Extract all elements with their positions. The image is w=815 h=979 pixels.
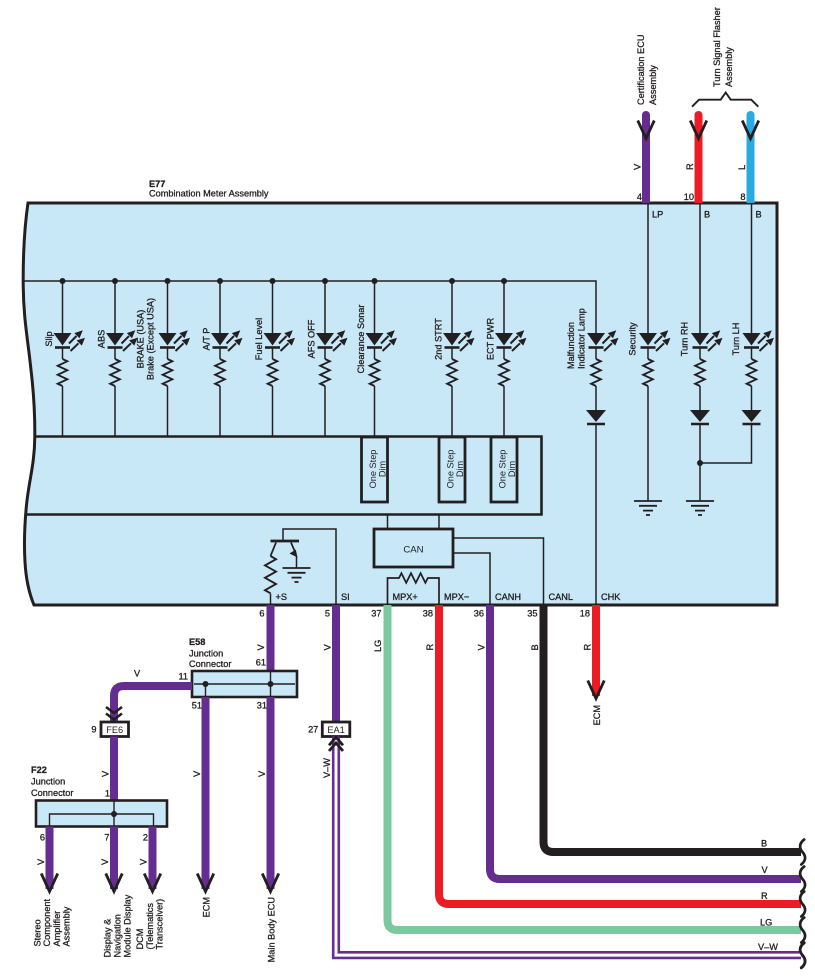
wire Slip column xyxy=(62,281,64,333)
resistor for A/T P xyxy=(215,359,225,386)
wire R CHK pin18 to ECM xyxy=(592,605,600,696)
wire CAN to CANL pin xyxy=(453,538,544,604)
wire xyxy=(272,386,274,437)
wire xyxy=(374,348,376,360)
wire B pin 10 to turn RH LED xyxy=(699,204,701,333)
svg-text:A/T P: A/T P xyxy=(202,328,212,351)
svg-text:V: V xyxy=(100,858,110,865)
resistor +S xyxy=(265,556,276,593)
break squiggle V-W (over wire) xyxy=(800,943,805,968)
svg-text:V: V xyxy=(477,644,487,651)
wire V FE6 to F22 pin1 xyxy=(110,737,118,801)
wire L from turn signal flasher to pin 8 xyxy=(747,115,755,203)
svg-text:B: B xyxy=(756,210,762,220)
node: bus junction BRAKE xyxy=(165,278,171,284)
svg-text:R: R xyxy=(583,644,593,651)
svg-text:E77: E77 xyxy=(149,179,165,189)
wire 2ndSTRT column xyxy=(451,281,453,333)
wire R from turn signal flasher to pin 10 xyxy=(695,115,703,203)
svg-text:CANH: CANH xyxy=(495,592,521,602)
wire xyxy=(114,348,116,360)
svg-text:6: 6 xyxy=(40,833,45,843)
LED indicator Clearance Sonar xyxy=(366,330,398,351)
svg-text:Clearance Sonar: Clearance Sonar xyxy=(356,305,366,374)
svg-text:35: 35 xyxy=(527,609,537,619)
svg-text:LG: LG xyxy=(373,640,383,652)
svg-text:51: 51 xyxy=(192,701,202,711)
wire xyxy=(451,348,453,360)
resistor for ABS xyxy=(110,359,120,386)
svg-text:V: V xyxy=(192,770,202,777)
node: bus junction ECTPWR xyxy=(501,278,507,284)
resistor for AFS OFF xyxy=(320,359,330,386)
svg-text:Slip: Slip xyxy=(44,331,54,346)
svg-text:V: V xyxy=(257,770,267,777)
wire xyxy=(219,386,221,437)
svg-text:61: 61 xyxy=(256,658,266,668)
LED indicator Slip xyxy=(54,330,86,351)
transistor Q1 xyxy=(271,541,300,558)
svg-text:1: 1 xyxy=(105,789,110,799)
svg-text:B: B xyxy=(704,210,710,220)
resistor for Slip xyxy=(58,359,68,386)
svg-text:31: 31 xyxy=(257,701,267,711)
svg-text:F22: F22 xyxy=(31,765,47,775)
svg-text:CHK: CHK xyxy=(601,592,621,602)
wire LP pin to security LED xyxy=(647,204,649,333)
wire xyxy=(374,386,376,437)
connector FE6 xyxy=(101,722,129,737)
node: bus junction ABS xyxy=(112,278,118,284)
svg-text:Turn LH: Turn LH xyxy=(731,323,741,356)
wire SI pin to transistor base xyxy=(283,529,336,604)
wire V F22 pin7 to display xyxy=(110,827,118,890)
svg-text:27: 27 xyxy=(308,725,318,735)
wire FuelLevel column xyxy=(272,281,274,333)
svg-text:MPX+: MPX+ xyxy=(393,592,418,602)
wire B CANL pin35 xyxy=(544,605,802,852)
svg-text:V: V xyxy=(323,644,333,651)
svg-text:37: 37 xyxy=(371,609,381,619)
svg-text:MPX−: MPX− xyxy=(444,592,469,602)
wire MPX+ stub to CAN xyxy=(387,515,389,530)
wire V from certification ECU to pin 4 xyxy=(642,115,650,203)
svg-text:2: 2 xyxy=(143,833,148,843)
svg-text:V: V xyxy=(139,858,149,865)
wire CAN to CANH pin xyxy=(453,553,490,604)
wire ABS column xyxy=(114,281,116,333)
node: bus junction Slip xyxy=(60,278,66,284)
LED indicator A/T P xyxy=(211,330,243,351)
wire V CANH pin36 xyxy=(490,605,801,879)
wire V E58 pin11 to FE6 xyxy=(114,686,192,722)
one step dim box U3 xyxy=(491,437,517,502)
illumination control band xyxy=(25,437,542,515)
svg-text:36: 36 xyxy=(474,609,484,619)
wire V E58 pin51 to ECM xyxy=(202,697,210,889)
svg-text:Combination Meter Assembly: Combination Meter Assembly xyxy=(149,189,269,199)
connector EA1 xyxy=(322,722,350,737)
wire xyxy=(647,386,649,501)
diode turn RH xyxy=(690,410,710,424)
svg-text:Connector: Connector xyxy=(189,659,231,669)
wire ClearanceSonar column xyxy=(374,281,376,333)
svg-text:11: 11 xyxy=(178,672,188,682)
wire xyxy=(699,386,701,410)
svg-text:Main Body ECU: Main Body ECU xyxy=(267,897,277,962)
wire xyxy=(62,348,64,360)
CAN box xyxy=(374,529,453,567)
break squiggle B xyxy=(800,840,805,865)
wire R MPX- pin38 xyxy=(439,605,801,904)
wire xyxy=(324,386,326,437)
wire BRAKE column xyxy=(167,281,169,333)
svg-text:R: R xyxy=(761,891,768,901)
resistor for 2nd STRT xyxy=(447,359,457,386)
svg-text:2nd STRT: 2nd STRT xyxy=(434,318,444,360)
wire xyxy=(647,348,649,360)
wire xyxy=(167,348,169,360)
wire to ground xyxy=(699,424,701,501)
break squiggle V-W xyxy=(800,943,805,968)
wire xyxy=(751,386,753,410)
svg-text:LG: LG xyxy=(760,918,772,928)
wire xyxy=(324,348,326,360)
LED indicator Fuel Level xyxy=(264,330,296,351)
svg-text:6: 6 xyxy=(259,609,264,619)
svg-text:5: 5 xyxy=(325,609,330,619)
wire xyxy=(503,386,505,437)
wire ATP column xyxy=(219,281,221,333)
LED indicator ECT PWR xyxy=(495,330,527,351)
ground security xyxy=(634,501,662,515)
ground turn lamps xyxy=(686,501,714,515)
LED indicator 2nd STRT xyxy=(443,330,475,351)
wire V E58 pin31 to main body ECU xyxy=(267,697,275,889)
svg-text:V: V xyxy=(256,644,266,651)
break squiggle R xyxy=(800,892,805,917)
node: bus junction AFSOFF xyxy=(322,278,328,284)
svg-text:LP: LP xyxy=(652,210,663,220)
ground transistor xyxy=(283,568,311,582)
wire xyxy=(114,386,116,437)
svg-text:ECM: ECM xyxy=(592,705,602,725)
LED malfunction indicator lamp xyxy=(587,330,619,351)
wire xyxy=(751,348,753,360)
svg-text:V: V xyxy=(762,865,769,875)
svg-text:AFS OFF: AFS OFF xyxy=(307,319,317,358)
resistor for BRAKE (USA) xyxy=(163,359,173,386)
svg-text:V: V xyxy=(36,858,46,865)
svg-text:Fuel Level: Fuel Level xyxy=(254,318,264,360)
resistor for ECT PWR xyxy=(499,359,509,386)
wire V SI pin5 to EA1 pin27 xyxy=(332,605,340,722)
double chevron into FE6 xyxy=(106,707,122,713)
wire MPX- stub to CAN xyxy=(438,515,440,530)
svg-text:BRAKE (USA)Brake (Except USA): BRAKE (USA)Brake (Except USA) xyxy=(136,298,156,380)
svg-text:V: V xyxy=(633,163,643,170)
wire V F22 pin2 to DCM xyxy=(149,827,157,890)
junction connector F22 xyxy=(36,801,167,827)
wire LG MPX+ pin37 xyxy=(388,605,802,930)
diode malfunction lamp xyxy=(586,410,606,424)
svg-text:V: V xyxy=(134,669,141,679)
svg-text:10: 10 xyxy=(684,192,694,202)
svg-text:Junction: Junction xyxy=(189,649,223,659)
svg-text:7: 7 xyxy=(104,833,109,843)
wire V +S pin6 to E58 pin61 xyxy=(267,605,275,671)
svg-text:R: R xyxy=(425,644,435,651)
svg-text:CANL: CANL xyxy=(549,592,574,602)
wire collector to ground xyxy=(296,556,298,568)
resistor turn RH xyxy=(695,359,705,386)
break squiggle V xyxy=(800,867,805,892)
wire to +S pin xyxy=(270,594,272,605)
svg-text:38: 38 xyxy=(423,609,433,619)
svg-text:V: V xyxy=(101,770,111,777)
svg-text:CAN: CAN xyxy=(403,545,423,556)
svg-text:SI: SI xyxy=(341,592,350,602)
LED turn LH xyxy=(743,330,775,351)
combination meter assembly box E77 xyxy=(23,203,777,605)
one step dim box U1 xyxy=(362,437,388,502)
svg-text:R: R xyxy=(685,163,695,170)
LED indicator ABS xyxy=(106,330,138,351)
svg-text:18: 18 xyxy=(580,609,590,619)
svg-text:V–W: V–W xyxy=(322,758,332,778)
svg-text:Junction: Junction xyxy=(31,777,65,787)
svg-text:ECM: ECM xyxy=(202,897,212,917)
wire B pin 8 to turn LH LED xyxy=(751,204,753,333)
svg-text:Turn RH: Turn RH xyxy=(680,322,690,356)
LED security xyxy=(639,330,671,351)
LED turn RH xyxy=(691,330,723,351)
node: bus junction ClearanceSonar xyxy=(372,278,378,284)
svg-text:B: B xyxy=(761,839,767,849)
diode turn LH xyxy=(742,410,762,424)
wire AFSOFF column xyxy=(324,281,326,333)
resistor malfunction lamp xyxy=(591,359,601,386)
svg-text:9: 9 xyxy=(91,725,96,735)
wire ECTPWR column xyxy=(503,281,505,333)
svg-text:8: 8 xyxy=(740,192,745,202)
node: turn lamp junction xyxy=(697,460,703,466)
break squiggle LG xyxy=(800,918,805,943)
svg-text:V–W: V–W xyxy=(758,942,778,952)
svg-text:Security: Security xyxy=(628,322,638,356)
svg-text:Connector: Connector xyxy=(31,788,73,798)
svg-text:FE6: FE6 xyxy=(106,725,123,735)
node: bus junction ATP xyxy=(217,278,223,284)
wire V-W from EA1 xyxy=(336,737,801,956)
wire turn LH to junction xyxy=(700,424,752,463)
svg-text:ECT PWR: ECT PWR xyxy=(486,318,496,361)
wire xyxy=(451,386,453,437)
svg-text:L: L xyxy=(737,165,747,170)
wire xyxy=(595,348,597,360)
resistor security xyxy=(643,359,653,386)
svg-text:B: B xyxy=(530,644,540,650)
one step dim box U2 xyxy=(439,437,465,502)
wire xyxy=(272,348,274,360)
wire xyxy=(219,348,221,360)
resistor turn LH xyxy=(747,359,757,386)
wire xyxy=(167,386,169,437)
LED indicator AFS OFF xyxy=(316,330,348,351)
svg-text:4: 4 xyxy=(637,192,642,202)
junction connector E58 xyxy=(192,671,297,697)
node: bus junction FuelLevel xyxy=(270,278,276,284)
brace turn signal flasher assembly xyxy=(692,93,758,107)
wire: lamp supply bus xyxy=(24,281,596,333)
resistor MPX termination xyxy=(388,573,440,604)
svg-text:ABS: ABS xyxy=(97,330,107,348)
wire xyxy=(699,348,701,360)
svg-text:EA1: EA1 xyxy=(327,725,344,735)
wire to CHK pin xyxy=(595,424,597,604)
LED indicator BRAKE (USA) xyxy=(159,330,191,351)
wire xyxy=(62,386,64,437)
svg-text:E58: E58 xyxy=(189,637,205,647)
node: bus junction 2ndSTRT xyxy=(449,278,455,284)
wire xyxy=(595,386,597,410)
wire V F22 pin6 to stereo amplifier xyxy=(46,827,54,890)
wire xyxy=(503,348,505,360)
resistor for Fuel Level xyxy=(268,359,278,386)
double chevron out of EA1 xyxy=(329,737,343,745)
resistor for Clearance Sonar xyxy=(370,359,380,386)
svg-text:+S: +S xyxy=(276,592,288,602)
